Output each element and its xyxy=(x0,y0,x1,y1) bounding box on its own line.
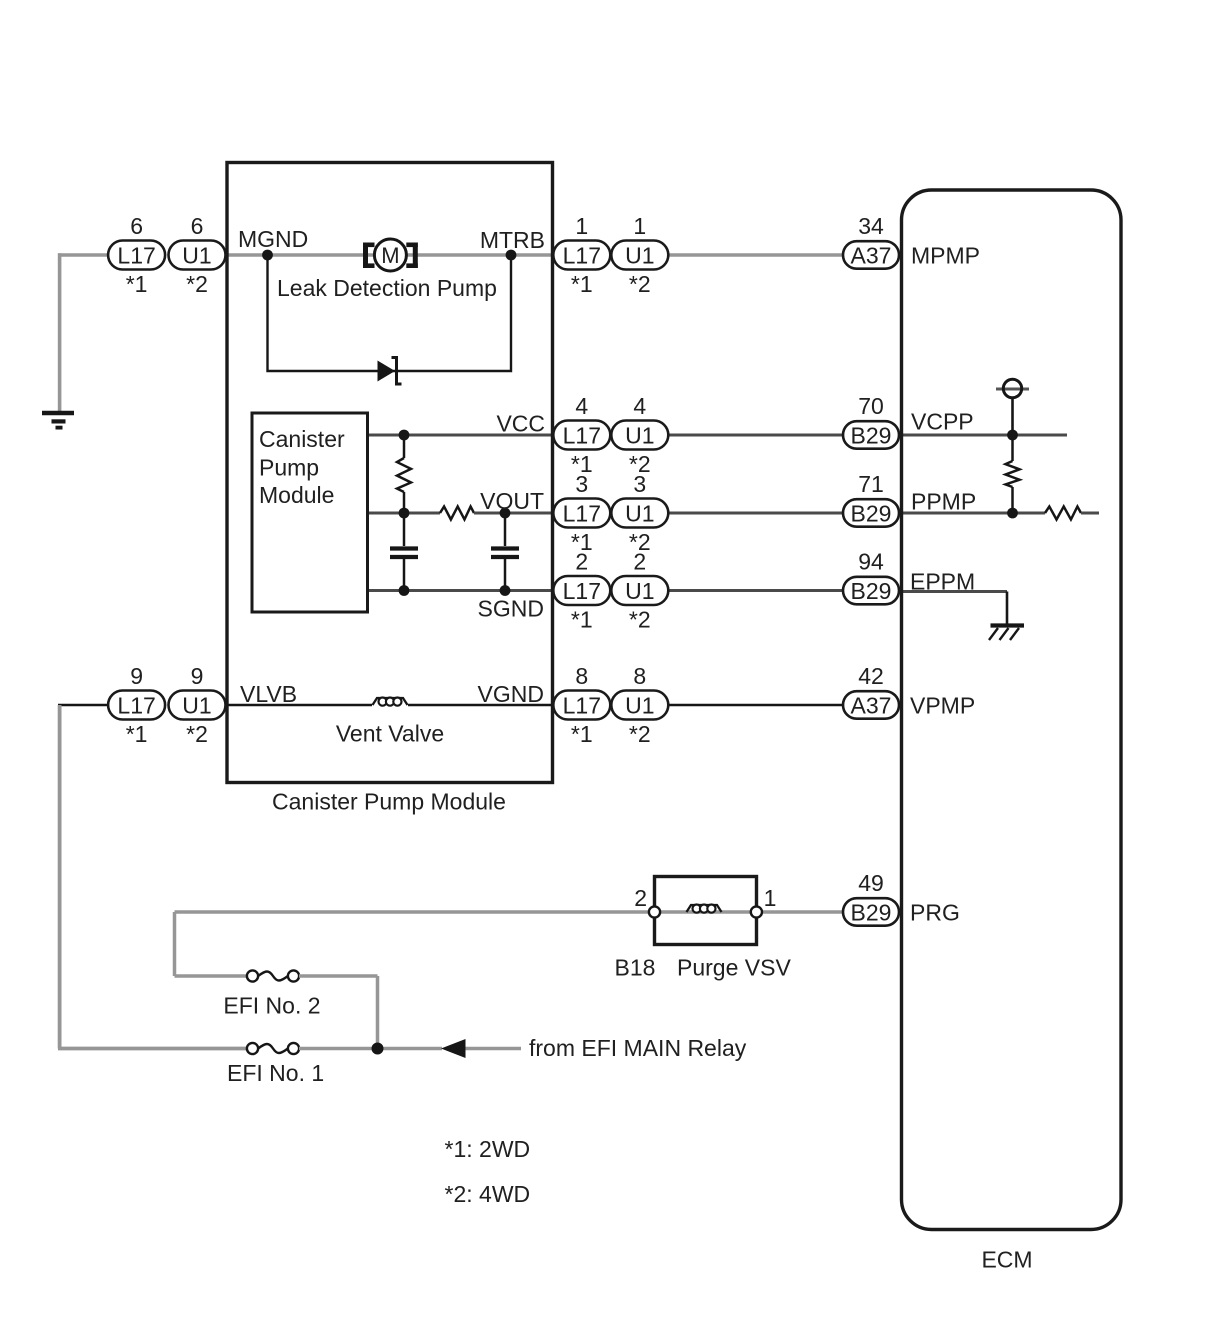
svg-text:Module: Module xyxy=(259,482,334,508)
svg-text:*1: *1 xyxy=(571,721,593,747)
svg-text:L17: L17 xyxy=(563,242,601,268)
svg-text:9: 9 xyxy=(130,663,143,689)
svg-text:B29: B29 xyxy=(851,578,892,604)
svg-text:*2: *2 xyxy=(629,721,651,747)
svg-text:VOUT: VOUT xyxy=(480,488,544,514)
svg-text:3: 3 xyxy=(575,471,588,497)
svg-text:2: 2 xyxy=(634,885,647,911)
svg-text:Pump: Pump xyxy=(259,455,319,481)
svg-text:8: 8 xyxy=(575,663,588,689)
svg-text:A37: A37 xyxy=(851,242,892,268)
svg-text:U1: U1 xyxy=(182,242,211,268)
svg-text:L17: L17 xyxy=(117,692,155,718)
svg-text:3: 3 xyxy=(633,471,646,497)
svg-text:MTRB: MTRB xyxy=(480,227,545,253)
svg-text:L17: L17 xyxy=(563,578,601,604)
svg-text:70: 70 xyxy=(858,393,884,419)
svg-text:L17: L17 xyxy=(563,500,601,526)
svg-text:B29: B29 xyxy=(851,422,892,448)
svg-text:6: 6 xyxy=(191,213,204,239)
svg-text:VGND: VGND xyxy=(478,681,544,707)
svg-text:*1: *1 xyxy=(571,607,593,633)
svg-text:2: 2 xyxy=(575,549,588,575)
svg-text:MGND: MGND xyxy=(238,226,308,252)
svg-text:EFI No. 1: EFI No. 1 xyxy=(227,1060,324,1086)
svg-text:PPMP: PPMP xyxy=(911,489,976,515)
svg-text:71: 71 xyxy=(858,471,884,497)
svg-text:from EFI MAIN Relay: from EFI MAIN Relay xyxy=(529,1035,747,1061)
svg-text:B18: B18 xyxy=(615,955,656,981)
svg-text:34: 34 xyxy=(858,213,884,239)
svg-text:A37: A37 xyxy=(851,692,892,718)
svg-text:1: 1 xyxy=(575,213,588,239)
svg-text:2: 2 xyxy=(633,549,646,575)
svg-text:VCC: VCC xyxy=(496,411,545,437)
svg-text:VLVB: VLVB xyxy=(240,681,297,707)
svg-text:49: 49 xyxy=(858,870,884,896)
svg-text:94: 94 xyxy=(858,549,884,575)
svg-text:1: 1 xyxy=(764,885,777,911)
svg-text:Canister: Canister xyxy=(259,426,345,452)
svg-text:9: 9 xyxy=(191,663,204,689)
svg-text:*2: *2 xyxy=(186,271,208,297)
svg-text:EFI No. 2: EFI No. 2 xyxy=(223,993,320,1019)
svg-text:L17: L17 xyxy=(563,422,601,448)
svg-text:*2: *2 xyxy=(186,721,208,747)
svg-text:U1: U1 xyxy=(625,242,654,268)
svg-text:4: 4 xyxy=(575,393,588,419)
svg-text:ECM: ECM xyxy=(981,1247,1032,1273)
svg-text:Leak Detection Pump: Leak Detection Pump xyxy=(277,275,497,301)
svg-text:*1: *1 xyxy=(126,721,148,747)
svg-text:M: M xyxy=(381,243,399,268)
svg-text:*2: 4WD: *2: 4WD xyxy=(445,1181,531,1207)
svg-text:U1: U1 xyxy=(625,422,654,448)
svg-text:B29: B29 xyxy=(851,500,892,526)
svg-text:*2: *2 xyxy=(629,607,651,633)
svg-text:*1: *1 xyxy=(571,271,593,297)
svg-text:Vent Valve: Vent Valve xyxy=(336,721,444,747)
svg-text:MPMP: MPMP xyxy=(911,243,980,269)
svg-text:VPMP: VPMP xyxy=(910,693,975,719)
svg-text:42: 42 xyxy=(858,663,884,689)
svg-text:B29: B29 xyxy=(851,899,892,925)
svg-text:L17: L17 xyxy=(563,692,601,718)
svg-text:U1: U1 xyxy=(625,500,654,526)
svg-text:U1: U1 xyxy=(625,692,654,718)
svg-text:PRG: PRG xyxy=(910,900,960,926)
svg-text:6: 6 xyxy=(130,213,143,239)
svg-text:U1: U1 xyxy=(182,692,211,718)
svg-text:EPPM: EPPM xyxy=(910,569,975,595)
svg-text:1: 1 xyxy=(633,213,646,239)
svg-text:Canister Pump Module: Canister Pump Module xyxy=(272,789,506,815)
svg-text:*1: *1 xyxy=(126,271,148,297)
svg-text:U1: U1 xyxy=(625,578,654,604)
svg-text:L17: L17 xyxy=(117,242,155,268)
svg-text:8: 8 xyxy=(633,663,646,689)
svg-text:VCPP: VCPP xyxy=(911,409,974,435)
svg-text:SGND: SGND xyxy=(478,596,544,622)
svg-text:Purge VSV: Purge VSV xyxy=(677,955,791,981)
svg-text:*2: *2 xyxy=(629,271,651,297)
svg-text:4: 4 xyxy=(633,393,646,419)
svg-text:*1: 2WD: *1: 2WD xyxy=(445,1136,531,1162)
